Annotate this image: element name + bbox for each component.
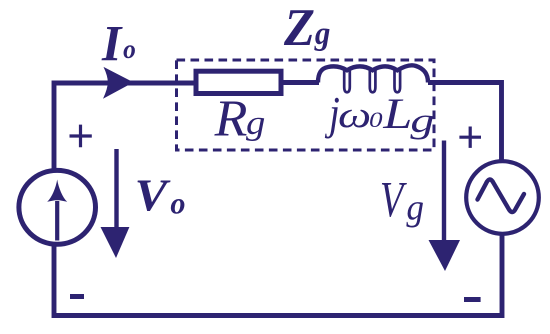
svg-text:g: g bbox=[246, 104, 265, 141]
svg-text:g: g bbox=[406, 187, 424, 228]
svg-text:0: 0 bbox=[369, 108, 383, 132]
svg-text:o: o bbox=[170, 187, 185, 221]
svg-text:V: V bbox=[380, 172, 407, 228]
svg-text:Z: Z bbox=[283, 0, 315, 57]
svg-text:R: R bbox=[214, 91, 248, 148]
svg-text:L: L bbox=[382, 90, 412, 138]
svg-text:I: I bbox=[101, 15, 123, 71]
svg-text:o: o bbox=[123, 33, 136, 64]
svg-text:g: g bbox=[314, 14, 330, 51]
svg-text:ω: ω bbox=[338, 94, 371, 135]
svg-text:V: V bbox=[135, 171, 171, 221]
svg-text:g: g bbox=[410, 102, 434, 140]
